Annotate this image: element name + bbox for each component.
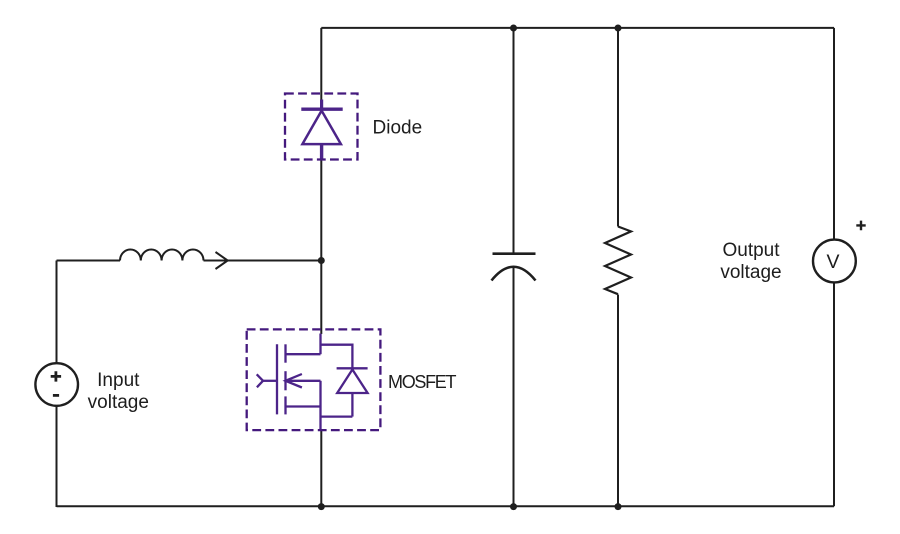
source V_in circle [35,363,78,406]
current arrow [216,252,228,269]
junction node resistor top [615,25,622,32]
wire left vertical (input branch) [56,261,58,508]
source plus sign [51,371,61,381]
voltmeter circle [813,240,856,283]
svg-text:voltage: voltage [88,392,149,413]
wire capacitor branch [513,28,515,506]
wire middle branch (diode/MOSFET column) [320,28,322,506]
svg-text:Input: Input [97,370,140,391]
MOSFET dashed box [247,329,381,430]
wire resistor branch [617,28,619,506]
inductor L [120,249,204,260]
junction node cap bottom [510,503,517,510]
wire input row horizontal [57,260,322,262]
svg-text:MOSFET: MOSFET [388,372,457,392]
svg-text:V: V [826,251,839,273]
voltmeter V letter [826,251,839,273]
junction node resistor bottom [615,503,622,510]
svg-text:voltage: voltage [720,262,781,283]
voltmeter plus sign [856,221,865,231]
diode D symbol [301,100,342,161]
label Diode [373,117,423,138]
wire right branch (voltmeter) [833,28,835,506]
source minus sign [53,394,59,397]
diode dashed box [285,94,358,160]
svg-text:Diode: Diode [373,117,423,138]
wire bottom bus [57,505,834,507]
wire top bus [321,27,834,29]
junction node at inductor/middle branch [318,257,325,264]
svg-text:Output: Output [722,240,780,261]
capacitor C [492,254,536,281]
label Output voltage [720,240,781,283]
label MOSFET [388,372,457,392]
resistor R [605,227,631,295]
MOSFET Q symbol [257,334,368,431]
junction node cap top [510,25,517,32]
label Input voltage [88,370,149,413]
junction node middle bottom [318,503,325,510]
